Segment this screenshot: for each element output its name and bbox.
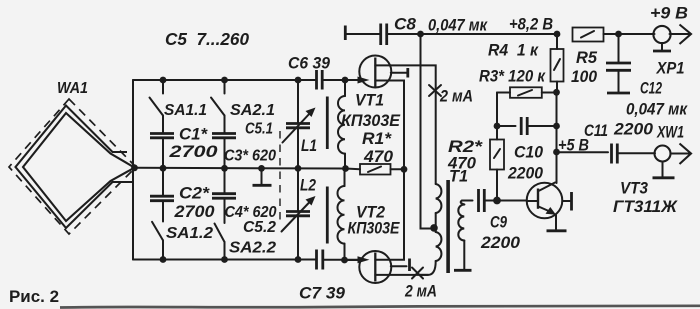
- node R2 / C10 left: [494, 123, 501, 130]
- ground (T1 secondary): [454, 269, 472, 272]
- resistor R1: [346, 129, 405, 175]
- transformer T1 primary: [420, 167, 468, 275]
- svg-text:C12: C12: [640, 79, 662, 98]
- wire VT1 source to R1: [375, 81, 404, 170]
- svg-text:C9: C9: [490, 213, 507, 232]
- node R4 top: [554, 31, 561, 38]
- wire left vertical: [132, 80, 134, 260]
- svg-text:XW1: XW1: [656, 123, 684, 142]
- svg-text:2700: 2700: [168, 142, 218, 161]
- transformer T1 secondary: [458, 201, 464, 270]
- wire bottom rail to VT2 gate: [323, 259, 361, 261]
- svg-text:C5 7...260: C5 7...260: [165, 29, 249, 49]
- node top rail / C5.1 column: [295, 77, 302, 84]
- svg-text:+8,2 В: +8,2 В: [509, 15, 553, 34]
- node middle rail / L1 L2 R1: [342, 165, 349, 172]
- capacitor C3: [212, 116, 276, 169]
- capacitor C6: [288, 54, 330, 90]
- svg-text:2700: 2700: [173, 202, 215, 221]
- svg-text:SA1.2: SA1.2: [166, 225, 213, 242]
- svg-text:C6 39: C6 39: [288, 54, 330, 73]
- resistor R4: [488, 34, 564, 92]
- capacitor C12: [606, 34, 688, 119]
- wire C9 to VT3 base: [484, 200, 527, 202]
- svg-text:2 мА: 2 мА: [439, 87, 473, 106]
- svg-text:C5.2: C5.2: [243, 219, 276, 236]
- T1 core: [446, 180, 450, 273]
- svg-text:R5: R5: [576, 48, 598, 67]
- svg-text:SA2.1: SA2.1: [230, 102, 275, 119]
- node C8 bus / T1 tap: [417, 31, 424, 38]
- node top rail / C3 column: [221, 77, 228, 84]
- svg-text:C8: C8: [394, 15, 417, 34]
- capacitor C10: [497, 117, 557, 183]
- scan page edge at bottom: [60, 306, 700, 308]
- inductor L1: [301, 80, 345, 169]
- node middle rail / C5.2 column: [295, 165, 302, 172]
- node C6 / L1 / VT1 gate: [342, 77, 349, 84]
- capacitor C4: [212, 168, 277, 223]
- measuring point 2mA (VT1 drain): [429, 85, 473, 106]
- wire bus to T1 tap: [421, 34, 434, 229]
- node middle rail / C1 column: [160, 165, 167, 172]
- switch SA2.1: [211, 80, 275, 119]
- node +5V: [553, 149, 560, 156]
- wire gang dashed link: [279, 131, 281, 222]
- svg-text:C1*: C1*: [179, 125, 208, 144]
- wire VT2 drain: [375, 274, 428, 276]
- node antenna junction: [131, 164, 138, 171]
- wire bottom rail: [133, 259, 316, 261]
- svg-text:R3* 120 к: R3* 120 к: [479, 67, 546, 86]
- wire +5V to C11: [557, 151, 609, 153]
- ground (VT3 emitter): [547, 229, 567, 232]
- svg-text:ХР1: ХР1: [656, 59, 685, 78]
- switch SA1.1: [150, 80, 208, 119]
- capacitor C1: [150, 116, 218, 169]
- ground (middle rail): [253, 168, 272, 185]
- svg-text:R1*: R1*: [362, 129, 392, 148]
- svg-text:R4 1 к: R4 1 к: [488, 41, 539, 60]
- node R3 / R4: [553, 89, 560, 96]
- connector XP1: [650, 4, 691, 78]
- svg-text:WA1: WA1: [57, 80, 88, 97]
- node C10 right: [553, 123, 560, 130]
- svg-text:C10: C10: [514, 143, 544, 162]
- svg-text:C11: C11: [584, 121, 608, 140]
- node C7 / L2 / VT2 gate: [341, 257, 348, 264]
- wire T1 secondary to C9: [462, 200, 473, 202]
- svg-text:VT3: VT3: [620, 179, 648, 198]
- svg-text:Рис. 2: Рис. 2: [9, 287, 59, 306]
- svg-text:100: 100: [571, 67, 597, 86]
- svg-text:0,047 мк: 0,047 мк: [428, 16, 488, 35]
- svg-text:0,047 мк: 0,047 мк: [626, 100, 688, 119]
- wire C11 to XW1: [617, 152, 655, 154]
- node bottom rail / C5.2 column: [295, 256, 302, 263]
- wire middle rail: [135, 167, 346, 170]
- ground (C12): [607, 92, 630, 95]
- capacitor C11: [584, 120, 654, 164]
- wire R2 top to R3 left: [496, 93, 498, 140]
- wire top rail: [133, 79, 316, 81]
- wire C8 left: [345, 33, 380, 35]
- node C12 top: [615, 31, 622, 38]
- wire VT2 source to R1: [375, 169, 404, 259]
- svg-text:VT1: VT1: [355, 91, 384, 110]
- capacitor C8: [381, 15, 488, 46]
- capacitor C2: [150, 168, 215, 221]
- node middle rail / C3 column: [221, 165, 228, 172]
- svg-text:C2*: C2*: [179, 184, 210, 203]
- capacitor C5.2 (variable): [243, 168, 316, 259]
- node R1 right / sources: [401, 166, 408, 173]
- svg-text:C7 39: C7 39: [299, 284, 346, 303]
- resistor R2: [447, 137, 504, 201]
- wire VT1 drain: [375, 65, 435, 184]
- node top rail / C1 column: [160, 77, 167, 84]
- svg-text:470: 470: [447, 154, 477, 173]
- capacitor C5.1 (variable): [245, 80, 316, 169]
- node bottom rail / C4 column: [221, 256, 228, 263]
- measuring point 2mA (VT2 drain): [404, 268, 437, 301]
- svg-text:C5.1: C5.1: [245, 121, 273, 138]
- svg-text:+9 В: +9 В: [650, 4, 688, 23]
- inductor L2: [300, 169, 345, 261]
- node T1 tap: [430, 224, 438, 232]
- transistor VT2: [345, 203, 410, 284]
- svg-text:L1: L1: [301, 136, 317, 155]
- svg-text:2200: 2200: [613, 120, 654, 139]
- wire R5 to XP1: [604, 33, 655, 35]
- svg-text:470: 470: [363, 147, 394, 166]
- wire top bus +8.2V: [387, 33, 557, 35]
- capacitor C7: [299, 250, 346, 303]
- wire top rail to VT1 gate: [322, 79, 361, 81]
- svg-text:2 мА: 2 мА: [404, 282, 437, 301]
- node bottom rail / C2 column: [160, 256, 167, 263]
- antenna WA1: [9, 80, 136, 234]
- capacitor C9: [479, 189, 521, 252]
- switch SA2.2: [215, 224, 277, 260]
- svg-text:2200: 2200: [480, 233, 521, 252]
- svg-text:L2: L2: [300, 176, 316, 195]
- transistor VT1: [341, 56, 408, 131]
- node middle rail / ground stub: [258, 165, 265, 172]
- wire +5V node vertical: [556, 92, 558, 183]
- connector XW1: [653, 123, 692, 178]
- node C9 / R2 / VT3 base: [493, 197, 501, 205]
- resistor R5: [571, 28, 604, 87]
- svg-text:SA1.1: SA1.1: [164, 102, 207, 119]
- switch SA1.2: [152, 222, 213, 260]
- svg-text:C3* 620: C3* 620: [224, 148, 276, 165]
- resistor R3: [479, 67, 557, 98]
- transistor VT3: [527, 179, 679, 230]
- svg-text:SA2.2: SA2.2: [229, 240, 276, 257]
- svg-text:КП303Е: КП303Е: [341, 111, 401, 130]
- svg-text:КП303Е: КП303Е: [348, 219, 401, 238]
- svg-text:2200: 2200: [507, 164, 543, 183]
- svg-text:ГТ311Ж: ГТ311Ж: [613, 197, 678, 216]
- ground (C8 left): [344, 26, 347, 41]
